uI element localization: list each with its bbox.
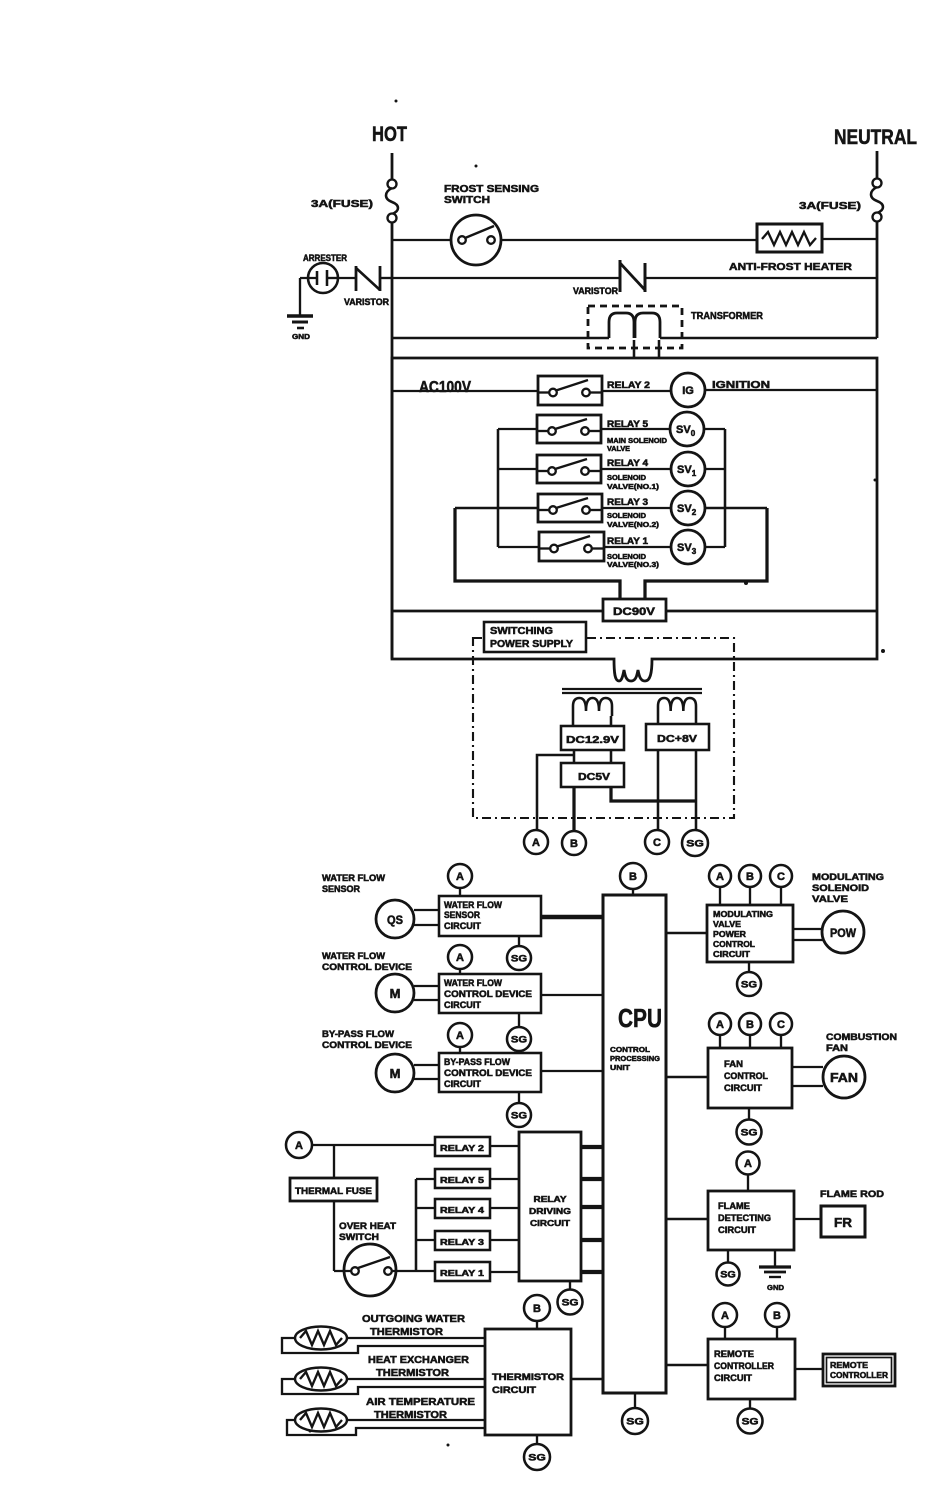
- svg-text:FLAME ROD: FLAME ROD: [820, 1189, 884, 1200]
- svg-text:FAN: FAN: [830, 1071, 858, 1085]
- svg-text:SOLENOID: SOLENOID: [812, 883, 869, 894]
- wire RELAY 5 to driving circuit: [490, 1178, 519, 1180]
- node SG row3: [507, 1103, 531, 1127]
- modulating solenoid valve POW: [822, 911, 864, 953]
- regulator DC+8V: [646, 724, 709, 750]
- svg-text:MODULATING: MODULATING: [713, 909, 773, 919]
- svg-text:B: B: [570, 838, 578, 850]
- node A fan: [709, 1013, 731, 1035]
- svg-text:SG: SG: [741, 1128, 758, 1139]
- wire CPU to fan circuit: [666, 1076, 708, 1079]
- svg-text:DRIVING: DRIVING: [529, 1206, 571, 1216]
- node SG relay driving: [558, 1290, 583, 1315]
- node A relay feed: [286, 1132, 312, 1158]
- svg-text:OUTGOING WATER: OUTGOING WATER: [362, 1314, 466, 1325]
- wire relay2 to igniter: [602, 390, 671, 392]
- svg-text:GND: GND: [292, 332, 311, 341]
- CPU U1: [603, 895, 666, 1393]
- svg-text:SG: SG: [742, 1417, 759, 1428]
- svg-text:SG: SG: [511, 1035, 527, 1046]
- node C: [645, 830, 669, 854]
- wire HOT vertical feed: [391, 153, 394, 180]
- wire relay1 to SV3: [604, 546, 671, 548]
- wires driving circuit to CPU: [581, 1145, 603, 1149]
- wire varistor row: [392, 277, 620, 279]
- svg-text:B: B: [746, 871, 754, 883]
- wires TH2 to thermistor circuit: [347, 1378, 485, 1380]
- transformer T2 core: [562, 688, 702, 690]
- relay RELAY 1: [539, 532, 604, 561]
- node A: [524, 830, 548, 854]
- svg-text:POWER SUPPLY: POWER SUPPLY: [490, 639, 573, 650]
- svg-text:RELAY: RELAY: [534, 1194, 567, 1204]
- svg-text:SG: SG: [686, 839, 704, 850]
- igniter IG: [671, 373, 705, 407]
- svg-text:A: A: [456, 952, 464, 964]
- solenoid valve SV2: [671, 491, 705, 525]
- wire relay2 row left: [392, 390, 538, 392]
- svg-text:GND: GND: [767, 1283, 785, 1292]
- wire remote circuit to remote controller: [795, 1368, 823, 1370]
- svg-text:VALVE(NO.3): VALVE(NO.3): [607, 562, 659, 569]
- svg-text:CONTROL: CONTROL: [713, 939, 755, 949]
- svg-text:SG: SG: [741, 980, 757, 991]
- flame detecting circuit: [708, 1191, 794, 1250]
- wire B to thermistor circuit: [536, 1321, 538, 1329]
- node C mod valve: [770, 865, 792, 887]
- wire mod valve circuit to POW (pair): [793, 928, 823, 930]
- svg-text:SENSOR: SENSOR: [444, 910, 480, 920]
- relay RELAY 5: [537, 415, 601, 443]
- wire flame circuit to FR: [794, 1218, 821, 1220]
- ground (flame circuit): [774, 1250, 776, 1267]
- flame rod FR: [821, 1206, 865, 1237]
- wires TH1 to thermistor circuit: [347, 1337, 485, 1339]
- wire NEUTRAL vertical feed: [876, 151, 879, 179]
- transformer T2 secondary winding 1: [573, 698, 612, 716]
- svg-text:HOT: HOT: [372, 123, 407, 146]
- svg-text:M: M: [390, 986, 401, 1001]
- node A remote: [713, 1303, 737, 1327]
- svg-text:RELAY 1: RELAY 1: [607, 536, 648, 546]
- svg-text:RELAY 5: RELAY 5: [440, 1175, 484, 1185]
- water flow sensor circuit: [439, 896, 541, 936]
- remote controller unit: [823, 1354, 895, 1386]
- svg-text:SWITCH: SWITCH: [444, 195, 490, 206]
- wire box3 to SG: [518, 1092, 520, 1104]
- fuse 3A NEUTRAL side: [873, 179, 882, 188]
- svg-text:CIRCUIT: CIRCUIT: [444, 921, 482, 931]
- svg-text:CIRCUIT: CIRCUIT: [714, 1373, 753, 1383]
- wire DC90V loop left: [455, 508, 620, 599]
- wire RELAY 2 to driving circuit: [490, 1145, 519, 1147]
- wire relay bus vertical: [415, 1179, 418, 1271]
- wire relay4 to SV1: [601, 468, 671, 470]
- svg-text:CIRCUIT: CIRCUIT: [444, 1079, 482, 1089]
- wire frost switch row right: [501, 239, 757, 241]
- wire DC90V loop right: [645, 508, 767, 599]
- wire M2 to circuit (pair): [414, 1064, 439, 1066]
- wire B to CPU: [632, 889, 634, 895]
- svg-text:DC90V: DC90V: [613, 606, 656, 618]
- svg-text:CONTROL: CONTROL: [610, 1045, 650, 1054]
- relay coil RELAY 3: [435, 1231, 490, 1250]
- modulating valve power control circuit: [707, 905, 793, 962]
- wire driving circuit to SG: [569, 1281, 571, 1290]
- wire overheat to relay bus: [392, 1270, 416, 1272]
- remote controller circuit: [708, 1339, 795, 1399]
- svg-text:SG: SG: [511, 954, 527, 965]
- svg-text:CONTROL: CONTROL: [724, 1071, 768, 1081]
- wire box2 to SG: [518, 1013, 520, 1027]
- svg-text:A: A: [716, 1019, 724, 1031]
- node SG: [682, 830, 708, 856]
- wire A row3 to box3: [459, 1047, 461, 1053]
- svg-text:B: B: [629, 871, 637, 883]
- svg-text:PROCESSING: PROCESSING: [610, 1054, 660, 1063]
- svg-text:NEUTRAL: NEUTRAL: [834, 126, 917, 149]
- wire remote box to SG: [749, 1399, 751, 1409]
- svg-text:FR: FR: [834, 1215, 853, 1230]
- varistor V1: [338, 277, 356, 279]
- node C fan: [770, 1013, 792, 1035]
- wire thermistor circuit to SG: [536, 1435, 538, 1444]
- by-pass flow control device circuit: [439, 1053, 541, 1092]
- wire SV2 to right loop: [705, 507, 767, 510]
- switching power supply enclosure: [473, 638, 734, 818]
- svg-text:A: A: [744, 1158, 752, 1170]
- svg-text:WATER FLOW: WATER FLOW: [444, 900, 502, 910]
- svg-text:RELAY 3: RELAY 3: [607, 497, 648, 507]
- svg-text:BY-PASS FLOW: BY-PASS FLOW: [322, 1029, 395, 1039]
- node B remote: [765, 1303, 789, 1327]
- wire relay5 row: [498, 428, 538, 430]
- wire DC12.9V to DC5V: [573, 750, 576, 763]
- thermistor circuit: [485, 1329, 571, 1435]
- svg-text:QS: QS: [387, 913, 403, 927]
- regulator DC12.9V: [561, 726, 624, 750]
- thermal fuse: [290, 1178, 377, 1201]
- svg-text:SOLENOID: SOLENOID: [607, 475, 646, 482]
- svg-text:RELAY 4: RELAY 4: [440, 1205, 484, 1215]
- svg-text:DC+8V: DC+8V: [657, 733, 697, 745]
- water flow sensor QS: [376, 900, 414, 938]
- svg-text:SENSOR: SENSOR: [322, 884, 360, 894]
- wire A to relay2: [312, 1144, 435, 1146]
- svg-text:MODULATING: MODULATING: [812, 872, 884, 883]
- svg-text:POW: POW: [830, 928, 856, 940]
- frost sensing switch S1: [451, 215, 501, 265]
- wire relay4 row: [498, 468, 537, 470]
- node A row1: [448, 864, 472, 888]
- fuse 3A HOT side: [388, 180, 397, 189]
- node B fan: [739, 1013, 761, 1035]
- solenoid valve SV1: [671, 452, 705, 486]
- wires AB to remote box: [724, 1327, 726, 1339]
- wire SV0 to right bus: [704, 428, 725, 430]
- svg-text:RELAY 2: RELAY 2: [440, 1143, 484, 1153]
- wire fan box to SG: [748, 1108, 750, 1120]
- svg-text:THERMISTOR: THERMISTOR: [376, 1368, 450, 1379]
- wire box1 to SG: [518, 936, 520, 947]
- wire QS to circuit (pair): [414, 909, 439, 911]
- svg-text:THERMISTOR: THERMISTOR: [370, 1327, 444, 1338]
- wire node A feed: [537, 755, 574, 831]
- fan control circuit: [708, 1048, 792, 1108]
- svg-text:C: C: [777, 1019, 785, 1031]
- wire transformer primary row left: [392, 337, 609, 340]
- svg-text:DC5V: DC5V: [578, 771, 610, 783]
- svg-text:SOLENOID: SOLENOID: [607, 554, 646, 561]
- wire ground stub: [299, 278, 301, 292]
- node A flame: [737, 1152, 760, 1175]
- svg-text:VALVE: VALVE: [713, 919, 741, 929]
- node SG flame: [717, 1263, 740, 1286]
- node SG row2: [507, 1027, 531, 1051]
- svg-text:RELAY 5: RELAY 5: [607, 419, 648, 429]
- svg-text:MAIN SOLENOID: MAIN SOLENOID: [607, 438, 667, 445]
- power supply DC90V: [603, 599, 666, 621]
- svg-text:VALVE: VALVE: [607, 446, 630, 453]
- wire A row2 to box2: [459, 969, 461, 974]
- ground (arrester): [299, 292, 301, 316]
- wire M1 to circuit (pair): [414, 985, 439, 987]
- svg-text:CIRCUIT: CIRCUIT: [713, 949, 751, 959]
- svg-text:HEAT EXCHANGER: HEAT EXCHANGER: [368, 1355, 470, 1366]
- svg-text:VARISTOR: VARISTOR: [573, 286, 618, 296]
- control board outline: [392, 358, 877, 681]
- svg-text:3A(FUSE): 3A(FUSE): [311, 198, 373, 210]
- wire relay5 to SV0: [601, 428, 670, 430]
- wire thermistor circuit to CPU: [571, 1378, 603, 1381]
- wire relay1 row: [498, 546, 539, 548]
- svg-text:CONTROL DEVICE: CONTROL DEVICE: [322, 1040, 412, 1050]
- svg-text:POWER: POWER: [713, 929, 746, 939]
- switching power supply label box: [484, 622, 586, 652]
- svg-text:B: B: [746, 1019, 754, 1031]
- svg-text:B: B: [773, 1310, 781, 1322]
- wire frost switch row left: [392, 239, 451, 241]
- relay driving circuit: [519, 1132, 581, 1281]
- arrester E1: [308, 263, 338, 293]
- relay RELAY 4: [537, 455, 601, 483]
- transformer T2 secondary winding 2: [658, 698, 696, 716]
- wires TH3 to thermistor circuit: [347, 1419, 485, 1421]
- transformer T1: [588, 306, 682, 348]
- svg-text:REMOTE: REMOTE: [830, 1360, 868, 1370]
- wire SV3 to right bus: [705, 546, 725, 548]
- wires ABC to fan box: [719, 1035, 721, 1048]
- wire CPU to SG below: [634, 1393, 636, 1408]
- svg-text:BY-PASS FLOW: BY-PASS FLOW: [444, 1057, 510, 1067]
- svg-text:CONTROLLER: CONTROLLER: [830, 1370, 888, 1380]
- wire left bus: [497, 429, 500, 547]
- node B mod valve: [739, 865, 761, 887]
- svg-text:A: A: [456, 1030, 464, 1042]
- svg-text:CIRCUIT: CIRCUIT: [724, 1083, 763, 1093]
- svg-text:COMBUSTION: COMBUSTION: [826, 1032, 897, 1043]
- svg-text:CIRCUIT: CIRCUIT: [530, 1218, 571, 1228]
- wire A to flame box: [747, 1175, 749, 1191]
- relay RELAY 2: [538, 376, 602, 405]
- wire heater to neutral: [822, 238, 877, 240]
- wire thermal fuse drop: [333, 1145, 335, 1178]
- wire box2 to CPU: [541, 994, 603, 996]
- node A row2: [448, 945, 472, 969]
- svg-text:VARISTOR: VARISTOR: [344, 297, 389, 307]
- node SG row1: [507, 946, 531, 970]
- wire transformer secondary leads: [633, 340, 636, 358]
- wires ABC to mod valve box: [719, 887, 721, 905]
- svg-text:CONTROL DEVICE: CONTROL DEVICE: [322, 962, 412, 972]
- svg-text:VALVE(NO.1): VALVE(NO.1): [607, 484, 659, 491]
- wire HOT vertical below fuse: [391, 222, 394, 659]
- node B: [562, 831, 586, 855]
- svg-text:A: A: [716, 871, 724, 883]
- node SG fan: [737, 1120, 762, 1145]
- relay RELAY 3: [538, 494, 602, 522]
- wire stubs to relay coils: [416, 1178, 435, 1180]
- svg-text:VALVE: VALVE: [812, 894, 848, 905]
- svg-text:SOLENOID: SOLENOID: [607, 513, 646, 520]
- svg-text:UNIT: UNIT: [610, 1063, 630, 1072]
- svg-text:RELAY 4: RELAY 4: [607, 458, 648, 468]
- svg-text:CONTROLLER: CONTROLLER: [714, 1361, 774, 1371]
- svg-text:A: A: [721, 1310, 729, 1322]
- node SG below CPU: [622, 1408, 648, 1434]
- svg-text:REMOTE: REMOTE: [714, 1349, 754, 1359]
- svg-text:SG: SG: [528, 1453, 546, 1464]
- svg-text:FAN: FAN: [724, 1059, 743, 1069]
- svg-text:M: M: [390, 1066, 401, 1081]
- wire varistor row to neutral: [645, 277, 877, 279]
- wire DC5V return: [611, 787, 697, 801]
- relay coil RELAY 1: [435, 1262, 490, 1281]
- svg-text:C: C: [777, 871, 785, 883]
- wire relay3 to SV2: [602, 507, 671, 509]
- svg-text:FAN: FAN: [826, 1043, 848, 1054]
- svg-text:CIRCUIT: CIRCUIT: [492, 1385, 536, 1396]
- relay coil RELAY 4: [435, 1199, 490, 1218]
- node A row3: [448, 1023, 472, 1047]
- wire RELAY 3 to driving circuit: [490, 1239, 519, 1241]
- svg-text:B: B: [533, 1303, 541, 1315]
- svg-text:SWITCHING: SWITCHING: [490, 626, 553, 637]
- combustion fan FAN: [823, 1056, 865, 1098]
- svg-text:DETECTING: DETECTING: [718, 1213, 771, 1223]
- svg-text:CIRCUIT: CIRCUIT: [444, 1000, 482, 1010]
- wire RELAY 1 to driving circuit: [490, 1271, 519, 1273]
- regulator DC5V: [561, 763, 624, 787]
- svg-text:SG: SG: [562, 1298, 579, 1309]
- wire node B feed: [572, 787, 575, 831]
- varistor V2: [618, 260, 621, 292]
- wire NEUTRAL vertical below fuse: [876, 221, 879, 338]
- node SG mod valve: [737, 972, 761, 996]
- relay coil RELAY 5: [435, 1169, 490, 1188]
- wire right bus: [724, 429, 727, 547]
- wire box1 to CPU: [541, 915, 603, 920]
- svg-text:THERMAL FUSE: THERMAL FUSE: [295, 1186, 372, 1197]
- svg-text:WATER FLOW: WATER FLOW: [322, 873, 386, 883]
- svg-text:TRANSFORMER: TRANSFORMER: [691, 310, 763, 322]
- svg-text:RELAY 1: RELAY 1: [440, 1268, 484, 1278]
- svg-text:SG: SG: [720, 1270, 736, 1281]
- svg-text:VALVE(NO.2): VALVE(NO.2): [607, 522, 659, 529]
- wire CPU to mod valve circuit: [666, 932, 707, 935]
- wire CPU to remote circuit: [666, 1364, 708, 1367]
- svg-text:A: A: [456, 871, 464, 883]
- svg-text:THERMISTOR: THERMISTOR: [492, 1372, 564, 1383]
- solenoid valve SV0: [670, 412, 704, 446]
- svg-text:A: A: [295, 1140, 303, 1152]
- node B above CPU: [620, 863, 646, 889]
- wire CPU to flame circuit: [666, 1218, 708, 1221]
- wire node SG feed: [695, 750, 698, 831]
- svg-text:FROST SENSING: FROST SENSING: [444, 184, 539, 195]
- svg-text:SWITCH: SWITCH: [339, 1232, 379, 1243]
- svg-text:SG: SG: [626, 1417, 644, 1428]
- svg-text:CONTROL DEVICE: CONTROL DEVICE: [444, 1068, 532, 1078]
- svg-text:C: C: [653, 837, 661, 849]
- svg-text:CONTROL DEVICE: CONTROL DEVICE: [444, 989, 532, 999]
- solenoid valve SV3: [671, 530, 705, 564]
- anti-frost heater R1: [757, 224, 822, 252]
- motor M2 by-pass flow control: [376, 1054, 414, 1092]
- svg-text:OVER HEAT: OVER HEAT: [339, 1221, 396, 1232]
- wire SV1 to right bus: [705, 468, 725, 470]
- node A mod valve: [709, 865, 731, 887]
- wire fan circuit to FAN (pair): [792, 1066, 823, 1068]
- relay coil RELAY 2: [435, 1137, 490, 1156]
- wire A to box1: [459, 888, 461, 896]
- wire box3 to CPU: [541, 1070, 603, 1072]
- svg-text:RELAY 2: RELAY 2: [607, 380, 650, 391]
- svg-text:IG: IG: [682, 385, 694, 397]
- svg-text:ANTI-FROST HEATER: ANTI-FROST HEATER: [729, 261, 852, 273]
- water flow control device circuit: [439, 974, 541, 1013]
- motor M1 water flow control: [376, 974, 414, 1012]
- node SG remote: [738, 1409, 763, 1434]
- wire RELAY 4 to driving circuit: [490, 1207, 519, 1209]
- node SG thermistor: [524, 1444, 550, 1470]
- wire flame box to SG: [727, 1250, 729, 1262]
- svg-text:WATER FLOW: WATER FLOW: [322, 951, 386, 961]
- svg-text:SG: SG: [511, 1111, 527, 1122]
- svg-text:3A(FUSE): 3A(FUSE): [799, 200, 861, 212]
- wire mod box to SG: [748, 962, 750, 973]
- svg-text:AC100V: AC100V: [419, 379, 471, 396]
- svg-text:DC12.9V: DC12.9V: [566, 734, 619, 746]
- wire DC bus split line: [392, 610, 603, 613]
- svg-text:CIRCUIT: CIRCUIT: [718, 1225, 757, 1235]
- wire relay3 row: [455, 507, 538, 510]
- svg-text:ARRESTER: ARRESTER: [303, 253, 347, 263]
- svg-text:RELAY 3: RELAY 3: [440, 1237, 484, 1247]
- wire igniter to right rail: [705, 389, 877, 391]
- svg-text:AIR TEMPERATURE: AIR TEMPERATURE: [366, 1397, 475, 1408]
- wire transformer primary row right: [660, 337, 877, 340]
- wire node C feed: [657, 750, 660, 830]
- svg-text:WATER FLOW: WATER FLOW: [444, 978, 502, 988]
- svg-text:CPU: CPU: [618, 1003, 662, 1033]
- svg-text:FLAME: FLAME: [718, 1201, 750, 1211]
- svg-text:A: A: [532, 837, 540, 849]
- node B thermistor: [524, 1295, 550, 1321]
